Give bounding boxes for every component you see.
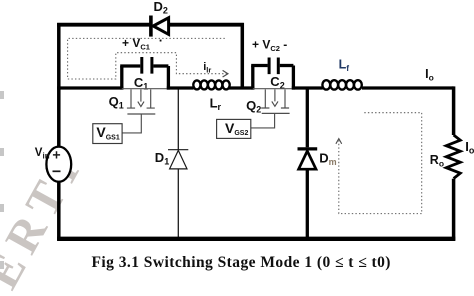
Vin plus sign [53, 151, 60, 158]
diode D2 (triangle pointing left) [153, 18, 168, 35]
diode Dm (triangle pointing up) [299, 151, 316, 169]
wire: C1 right top lead [153, 64, 168, 67]
watermark ERTI diagonal [0, 142, 94, 296]
wire: D1 branch top (rail to D1 cathode) [177, 90, 179, 150]
wire: rail segment C (Lr to C2 left node) [229, 86, 254, 89]
diode D1 (triangle pointing up) [170, 150, 187, 169]
wire: bottom rail [57, 237, 455, 241]
wire: left vertical from top rail down to Vin + [57, 23, 61, 147]
wire: top rail left segment (Vin+ to D2 anode) [57, 23, 150, 27]
wire: right vertical (Ro bottom to bottom rail) [452, 179, 456, 241]
inductor Lf (5 loop coil) [322, 80, 361, 89]
transistor Q2 (arrow) [272, 89, 278, 106]
wire: left vertical from Vin - down to bottom rail [57, 181, 61, 241]
dashed current loop 1 (left, through C1) [68, 38, 227, 79]
transistor Q2 (right leg + tick) [281, 89, 289, 108]
transistor Q1 (gate bar) [127, 113, 155, 115]
wire: Dm branch top (rail to Dm cathode) [306, 88, 309, 147]
capacitor C2 (plates) [269, 58, 278, 75]
wire: C2 left top lead [251, 64, 268, 67]
resistor Ro (zigzag) [446, 135, 460, 179]
wire: C1 left riser [120, 66, 123, 90]
wire: right vertical (corner to Ro top) [452, 86, 456, 135]
page edge artifact marks [0, 91, 4, 269]
transistor Q1 (right leg + tick) [147, 89, 155, 108]
diode Dm (cathode bar) [298, 147, 318, 150]
wire: Dm branch bottom (anode to bottom rail) [306, 169, 309, 240]
arrow head of i_lr dashed arrow [223, 70, 228, 77]
diode D2 (cathode bar) [149, 16, 153, 37]
wire: C2 right riser [292, 66, 295, 90]
wire: top-right drop (top rail down to rail node) [241, 23, 245, 90]
wire: D1 branch bottom (anode to bottom rail) [177, 169, 179, 240]
Vin minus sign [53, 170, 61, 172]
inductor Lr (5 loop coil) [193, 80, 229, 89]
capacitor C1 (plates) [142, 57, 152, 74]
wire: rail segment E (Lf to top-right corner) [362, 86, 454, 89]
wire: top rail right segment (D2 to top-right drop) [169, 23, 244, 27]
transistor Q1 (left leg + tick) [127, 89, 135, 108]
svg-text:+ VC2 -: + VC2 - [252, 37, 287, 53]
gate source VGS1 (box) [93, 124, 122, 144]
wire: rail segment D (C2 right node through Dm node to Lf) [292, 86, 323, 89]
wire: main rail segment A (left wire to C1 left node) [57, 86, 123, 89]
diode D1 (cathode bar) [168, 149, 188, 151]
arrow head up of output loop [336, 139, 342, 144]
wire: Q2 gate lead to VGS2 [251, 113, 275, 128]
wire: C1 right riser [167, 66, 170, 90]
transistor Q2 (left leg + tick) [261, 89, 269, 108]
transistor Q2 (gate bar) [262, 112, 290, 114]
wire: thin drain-source link under C2 (Q2 channel bus) [253, 88, 294, 90]
svg-text:Fig 3.1 Switching Stage Mode 1: Fig 3.1 Switching Stage Mode 1 (0 ≤ t ≤ … [92, 254, 391, 271]
wire: C1 left top lead [120, 64, 140, 67]
gate source VGS2 (box) [217, 119, 251, 138]
wire: rail segment B (C1 right node to Lr) [167, 86, 194, 89]
wire: C2 right top lead [280, 64, 294, 67]
dashed current loop 2 (right, output loop) [339, 113, 422, 214]
wire: Q1 gate lead to VGS1 [122, 114, 141, 133]
wire: C2 left riser [251, 66, 254, 90]
source Vin (circle) [46, 147, 71, 182]
svg-text:·: · [159, 33, 163, 48]
transistor Q1 (arrow) [138, 89, 144, 106]
wire: thin drain-source link under C1 (Q1 channel bus) [122, 88, 169, 90]
